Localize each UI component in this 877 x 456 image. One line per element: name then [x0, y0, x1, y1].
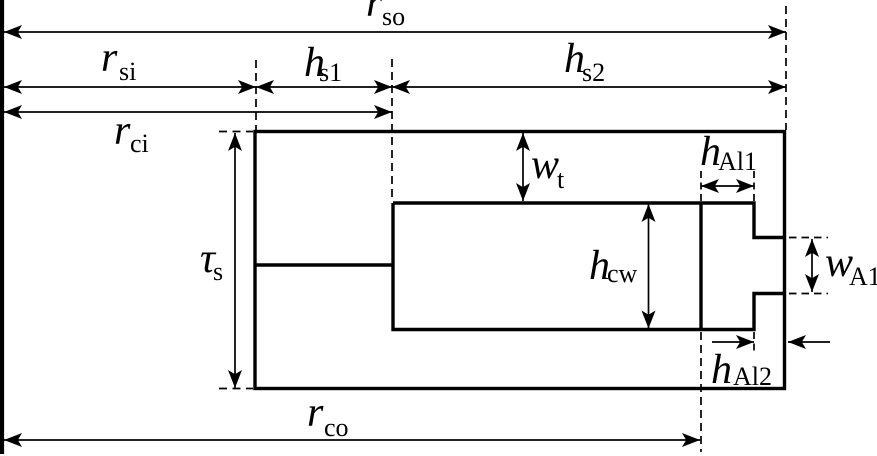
outline: slot shape	[393, 203, 786, 330]
dimension w_A1	[805, 239, 877, 292]
svg-text:si: si	[119, 57, 136, 86]
svg-text:w: w	[531, 142, 559, 188]
svg-text:r: r	[307, 390, 324, 436]
extension dashed line left of top-left corner	[219, 131, 253, 133]
dimension h_cw	[589, 204, 656, 329]
extension dashed line x=392	[391, 59, 393, 200]
svg-text:so: so	[382, 2, 405, 31]
extension dashed line left of bottom-left corner	[219, 388, 253, 390]
extension dashed line right of upper step	[789, 237, 828, 239]
svg-text:A1: A1	[849, 262, 877, 291]
extension dashed line x=754 below slot	[753, 332, 755, 353]
svg-text:s2: s2	[582, 58, 605, 87]
svg-text:Al2: Al2	[733, 362, 772, 391]
dimension h_Al1	[700, 129, 757, 193]
extension dashed line right of lower step	[789, 293, 828, 295]
svg-text:cw: cw	[607, 259, 638, 288]
wire: aluminium divider	[699, 203, 702, 330]
svg-text:r: r	[114, 108, 131, 154]
svg-text:Al1: Al1	[718, 147, 757, 176]
extension dashed line x=701 above slot	[700, 171, 702, 201]
svg-text:s: s	[213, 257, 223, 286]
dimension h_Al2	[711, 335, 830, 393]
dimension r_si / h_s1 / h_s2 row	[4, 35, 786, 94]
left reference wall	[0, 0, 4, 454]
svg-text:s1: s1	[319, 58, 342, 87]
extension dashed line x=701 below slot	[700, 332, 702, 452]
svg-text:t: t	[557, 165, 565, 194]
dimension r_ci	[4, 105, 392, 158]
svg-text:ci: ci	[130, 129, 149, 158]
svg-text:co: co	[324, 413, 349, 442]
svg-text:h: h	[711, 347, 732, 393]
dimension tau_s	[200, 133, 242, 388]
dimension r_co	[4, 390, 700, 447]
wire: tooth centre line	[255, 263, 393, 266]
dimension w_t	[516, 133, 565, 201]
svg-text:r: r	[101, 35, 118, 81]
extension dashed line x=754 above slot	[753, 171, 755, 201]
svg-text:r: r	[366, 0, 383, 26]
outline: outer rectangle	[255, 132, 785, 389]
extension dashed line x=256	[255, 60, 257, 130]
dimension r_so	[4, 0, 786, 39]
extension dashed line x=786	[785, 6, 787, 130]
